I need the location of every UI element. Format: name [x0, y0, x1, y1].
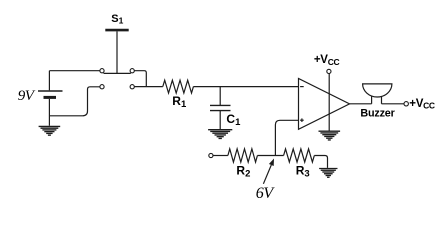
svg-text:R1: R1: [172, 94, 187, 110]
svg-text:Buzzer: Buzzer: [360, 108, 395, 120]
svg-text:R2: R2: [236, 163, 250, 179]
svg-text:6V: 6V: [256, 185, 276, 202]
svg-text:9V: 9V: [18, 88, 36, 104]
svg-text:S1: S1: [111, 13, 123, 26]
svg-text:R3: R3: [296, 163, 310, 179]
svg-text:C1: C1: [226, 112, 241, 128]
svg-text:+VCC: +VCC: [314, 54, 340, 67]
svg-text:+VCC: +VCC: [409, 98, 435, 111]
